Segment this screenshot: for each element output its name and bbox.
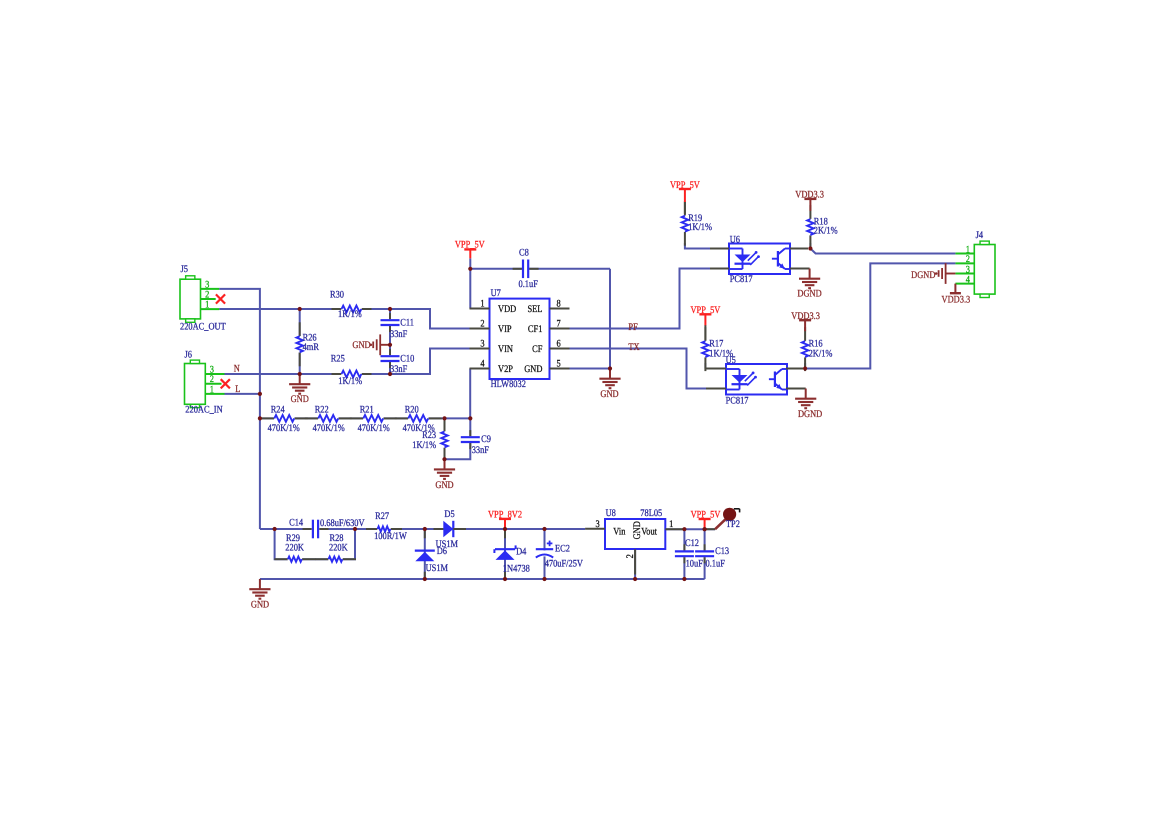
- svg-text:4mR: 4mR: [303, 342, 320, 353]
- svg-text:1K/1%: 1K/1%: [688, 222, 712, 233]
- svg-text:C12: C12: [685, 538, 699, 549]
- svg-text:GND: GND: [251, 599, 269, 610]
- svg-text:VPP_5V: VPP_5V: [455, 239, 486, 250]
- svg-text:33nF: 33nF: [390, 364, 408, 375]
- svg-text:1N4738: 1N4738: [503, 563, 530, 574]
- svg-text:PF: PF: [628, 322, 638, 333]
- svg-text:R20: R20: [405, 405, 419, 416]
- svg-text:GND: GND: [352, 340, 370, 351]
- svg-text:1: 1: [480, 299, 484, 310]
- svg-text:0.1uF: 0.1uF: [706, 559, 726, 570]
- svg-text:4: 4: [966, 274, 970, 285]
- svg-text:470K/1%: 470K/1%: [313, 423, 345, 434]
- svg-text:DGND: DGND: [911, 270, 935, 281]
- svg-text:VIP: VIP: [498, 324, 512, 335]
- svg-text:TP2: TP2: [726, 519, 740, 530]
- svg-text:U8: U8: [606, 508, 616, 519]
- svg-text:C14: C14: [289, 518, 303, 529]
- svg-text:D4: D4: [516, 547, 526, 558]
- svg-text:C10: C10: [400, 354, 414, 365]
- svg-text:VIN: VIN: [498, 344, 513, 355]
- svg-text:470K/1%: 470K/1%: [358, 423, 390, 434]
- svg-text:8: 8: [557, 299, 561, 310]
- svg-text:DGND: DGND: [797, 289, 821, 300]
- svg-text:R25: R25: [331, 353, 345, 364]
- svg-text:VDD: VDD: [498, 304, 516, 315]
- svg-text:J6: J6: [185, 349, 192, 360]
- svg-text:1K/1%: 1K/1%: [412, 440, 436, 451]
- svg-text:78L05: 78L05: [640, 508, 662, 519]
- svg-text:R24: R24: [271, 405, 285, 416]
- svg-text:Vout: Vout: [641, 527, 657, 538]
- svg-text:2K/1%: 2K/1%: [809, 349, 833, 360]
- svg-text:GND: GND: [524, 364, 542, 375]
- svg-text:U6: U6: [730, 235, 740, 246]
- svg-text:U7: U7: [491, 288, 501, 299]
- svg-text:4: 4: [480, 359, 484, 370]
- svg-text:SEL: SEL: [527, 304, 542, 315]
- svg-text:D5: D5: [444, 509, 454, 520]
- svg-text:N: N: [234, 363, 240, 374]
- svg-text:D6: D6: [437, 546, 447, 557]
- svg-text:VPP_5V: VPP_5V: [690, 305, 721, 316]
- svg-text:5: 5: [557, 359, 561, 370]
- svg-text:C13: C13: [715, 546, 729, 557]
- svg-text:VPP_8V2: VPP_8V2: [488, 509, 522, 520]
- svg-text:2: 2: [480, 319, 484, 330]
- svg-text:1K/1%: 1K/1%: [338, 309, 362, 320]
- svg-text:VDD3.3: VDD3.3: [791, 311, 820, 322]
- svg-text:470uF/25V: 470uF/25V: [545, 559, 584, 570]
- svg-text:R30: R30: [330, 289, 344, 300]
- svg-text:3: 3: [480, 339, 484, 350]
- svg-text:PC817: PC817: [726, 395, 749, 406]
- svg-text:6: 6: [557, 339, 561, 350]
- svg-text:US1M: US1M: [426, 563, 448, 574]
- svg-text:Vin: Vin: [613, 527, 625, 538]
- svg-text:C9: C9: [481, 434, 491, 445]
- svg-text:VPP_5V: VPP_5V: [691, 509, 722, 520]
- svg-text:1: 1: [205, 300, 209, 311]
- svg-text:R27: R27: [375, 511, 389, 522]
- svg-text:GND: GND: [632, 521, 643, 539]
- svg-text:R22: R22: [315, 405, 329, 416]
- svg-text:1: 1: [669, 519, 673, 530]
- svg-text:C8: C8: [519, 248, 529, 259]
- svg-text:2: 2: [625, 554, 636, 558]
- svg-text:220AC_OUT: 220AC_OUT: [180, 322, 226, 333]
- svg-text:100R/1W: 100R/1W: [374, 531, 407, 542]
- svg-text:0.68uF/630V: 0.68uF/630V: [320, 518, 365, 529]
- svg-text:1K/1%: 1K/1%: [709, 349, 733, 360]
- svg-text:7: 7: [557, 319, 561, 330]
- svg-text:C11: C11: [400, 318, 414, 329]
- svg-text:CF: CF: [532, 344, 543, 355]
- svg-text:CF1: CF1: [528, 324, 542, 335]
- svg-text:VPP_5V: VPP_5V: [670, 180, 701, 191]
- svg-text:GND: GND: [600, 389, 618, 400]
- svg-text:VDD3.3: VDD3.3: [795, 189, 824, 200]
- svg-text:PC817: PC817: [730, 274, 753, 285]
- svg-text:J4: J4: [976, 230, 983, 241]
- svg-text:1: 1: [210, 384, 214, 395]
- svg-text:VDD3.3: VDD3.3: [942, 294, 971, 305]
- svg-text:GND: GND: [291, 394, 309, 405]
- svg-text:L: L: [235, 384, 240, 395]
- svg-text:220AC_IN: 220AC_IN: [185, 404, 222, 415]
- svg-text:R21: R21: [360, 405, 374, 416]
- svg-text:TX: TX: [628, 342, 640, 353]
- svg-text:HLW8032: HLW8032: [491, 379, 526, 390]
- svg-text:DGND: DGND: [798, 409, 822, 420]
- svg-text:EC2: EC2: [555, 543, 570, 554]
- svg-text:0.1uF: 0.1uF: [519, 279, 539, 290]
- svg-text:220K: 220K: [329, 543, 348, 554]
- svg-text:V2P: V2P: [498, 364, 513, 375]
- svg-text:10uF: 10uF: [686, 559, 704, 570]
- svg-text:GND: GND: [435, 480, 453, 491]
- svg-text:220K: 220K: [285, 543, 304, 554]
- svg-text:1K/1%: 1K/1%: [338, 376, 362, 387]
- svg-text:33nF: 33nF: [390, 329, 408, 340]
- svg-text:J5: J5: [181, 264, 188, 275]
- svg-text:3: 3: [596, 519, 600, 530]
- svg-text:470K/1%: 470K/1%: [268, 423, 300, 434]
- svg-text:33nF: 33nF: [472, 445, 490, 456]
- svg-text:2K/1%: 2K/1%: [814, 225, 838, 236]
